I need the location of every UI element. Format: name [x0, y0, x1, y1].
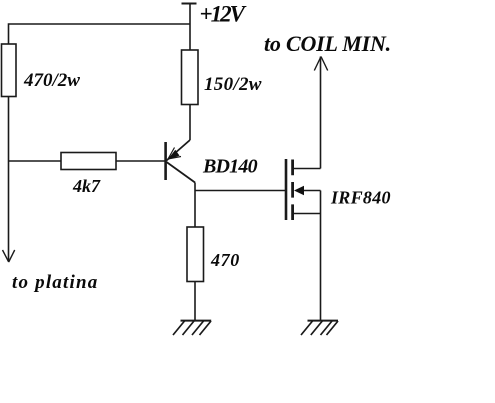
svg-text:470: 470	[210, 250, 240, 270]
svg-text:+12V: +12V	[200, 2, 247, 27]
svg-text:4k7: 4k7	[72, 176, 101, 196]
svg-text:to platina: to platina	[12, 272, 98, 293]
svg-text:IRF840: IRF840	[330, 188, 391, 208]
svg-text:470/2w: 470/2w	[23, 70, 80, 91]
svg-text:150/2w: 150/2w	[204, 74, 262, 95]
svg-text:BD140: BD140	[202, 156, 258, 178]
svg-text:to COIL MIN.: to COIL MIN.	[264, 31, 391, 56]
